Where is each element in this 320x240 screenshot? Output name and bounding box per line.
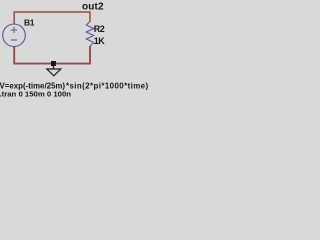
voltage source B1 (3, 24, 26, 47)
svg-text:1K: 1K (94, 36, 106, 46)
svg-text:B1: B1 (24, 18, 35, 28)
svg-text:R2: R2 (94, 24, 105, 34)
svg-text:out2: out2 (82, 2, 104, 13)
wire (14, 46, 90, 64)
resistor R2 (86, 22, 93, 47)
background (0, 0, 150, 100)
ground (47, 66, 61, 76)
svg-text:.tran 0 150m 0 100n: .tran 0 150m 0 100n (0, 90, 71, 99)
junction dot (51, 61, 56, 66)
svg-text:*sin(2*pi*1000*time): *sin(2*pi*1000*time) (66, 82, 149, 91)
wire (14, 12, 90, 24)
